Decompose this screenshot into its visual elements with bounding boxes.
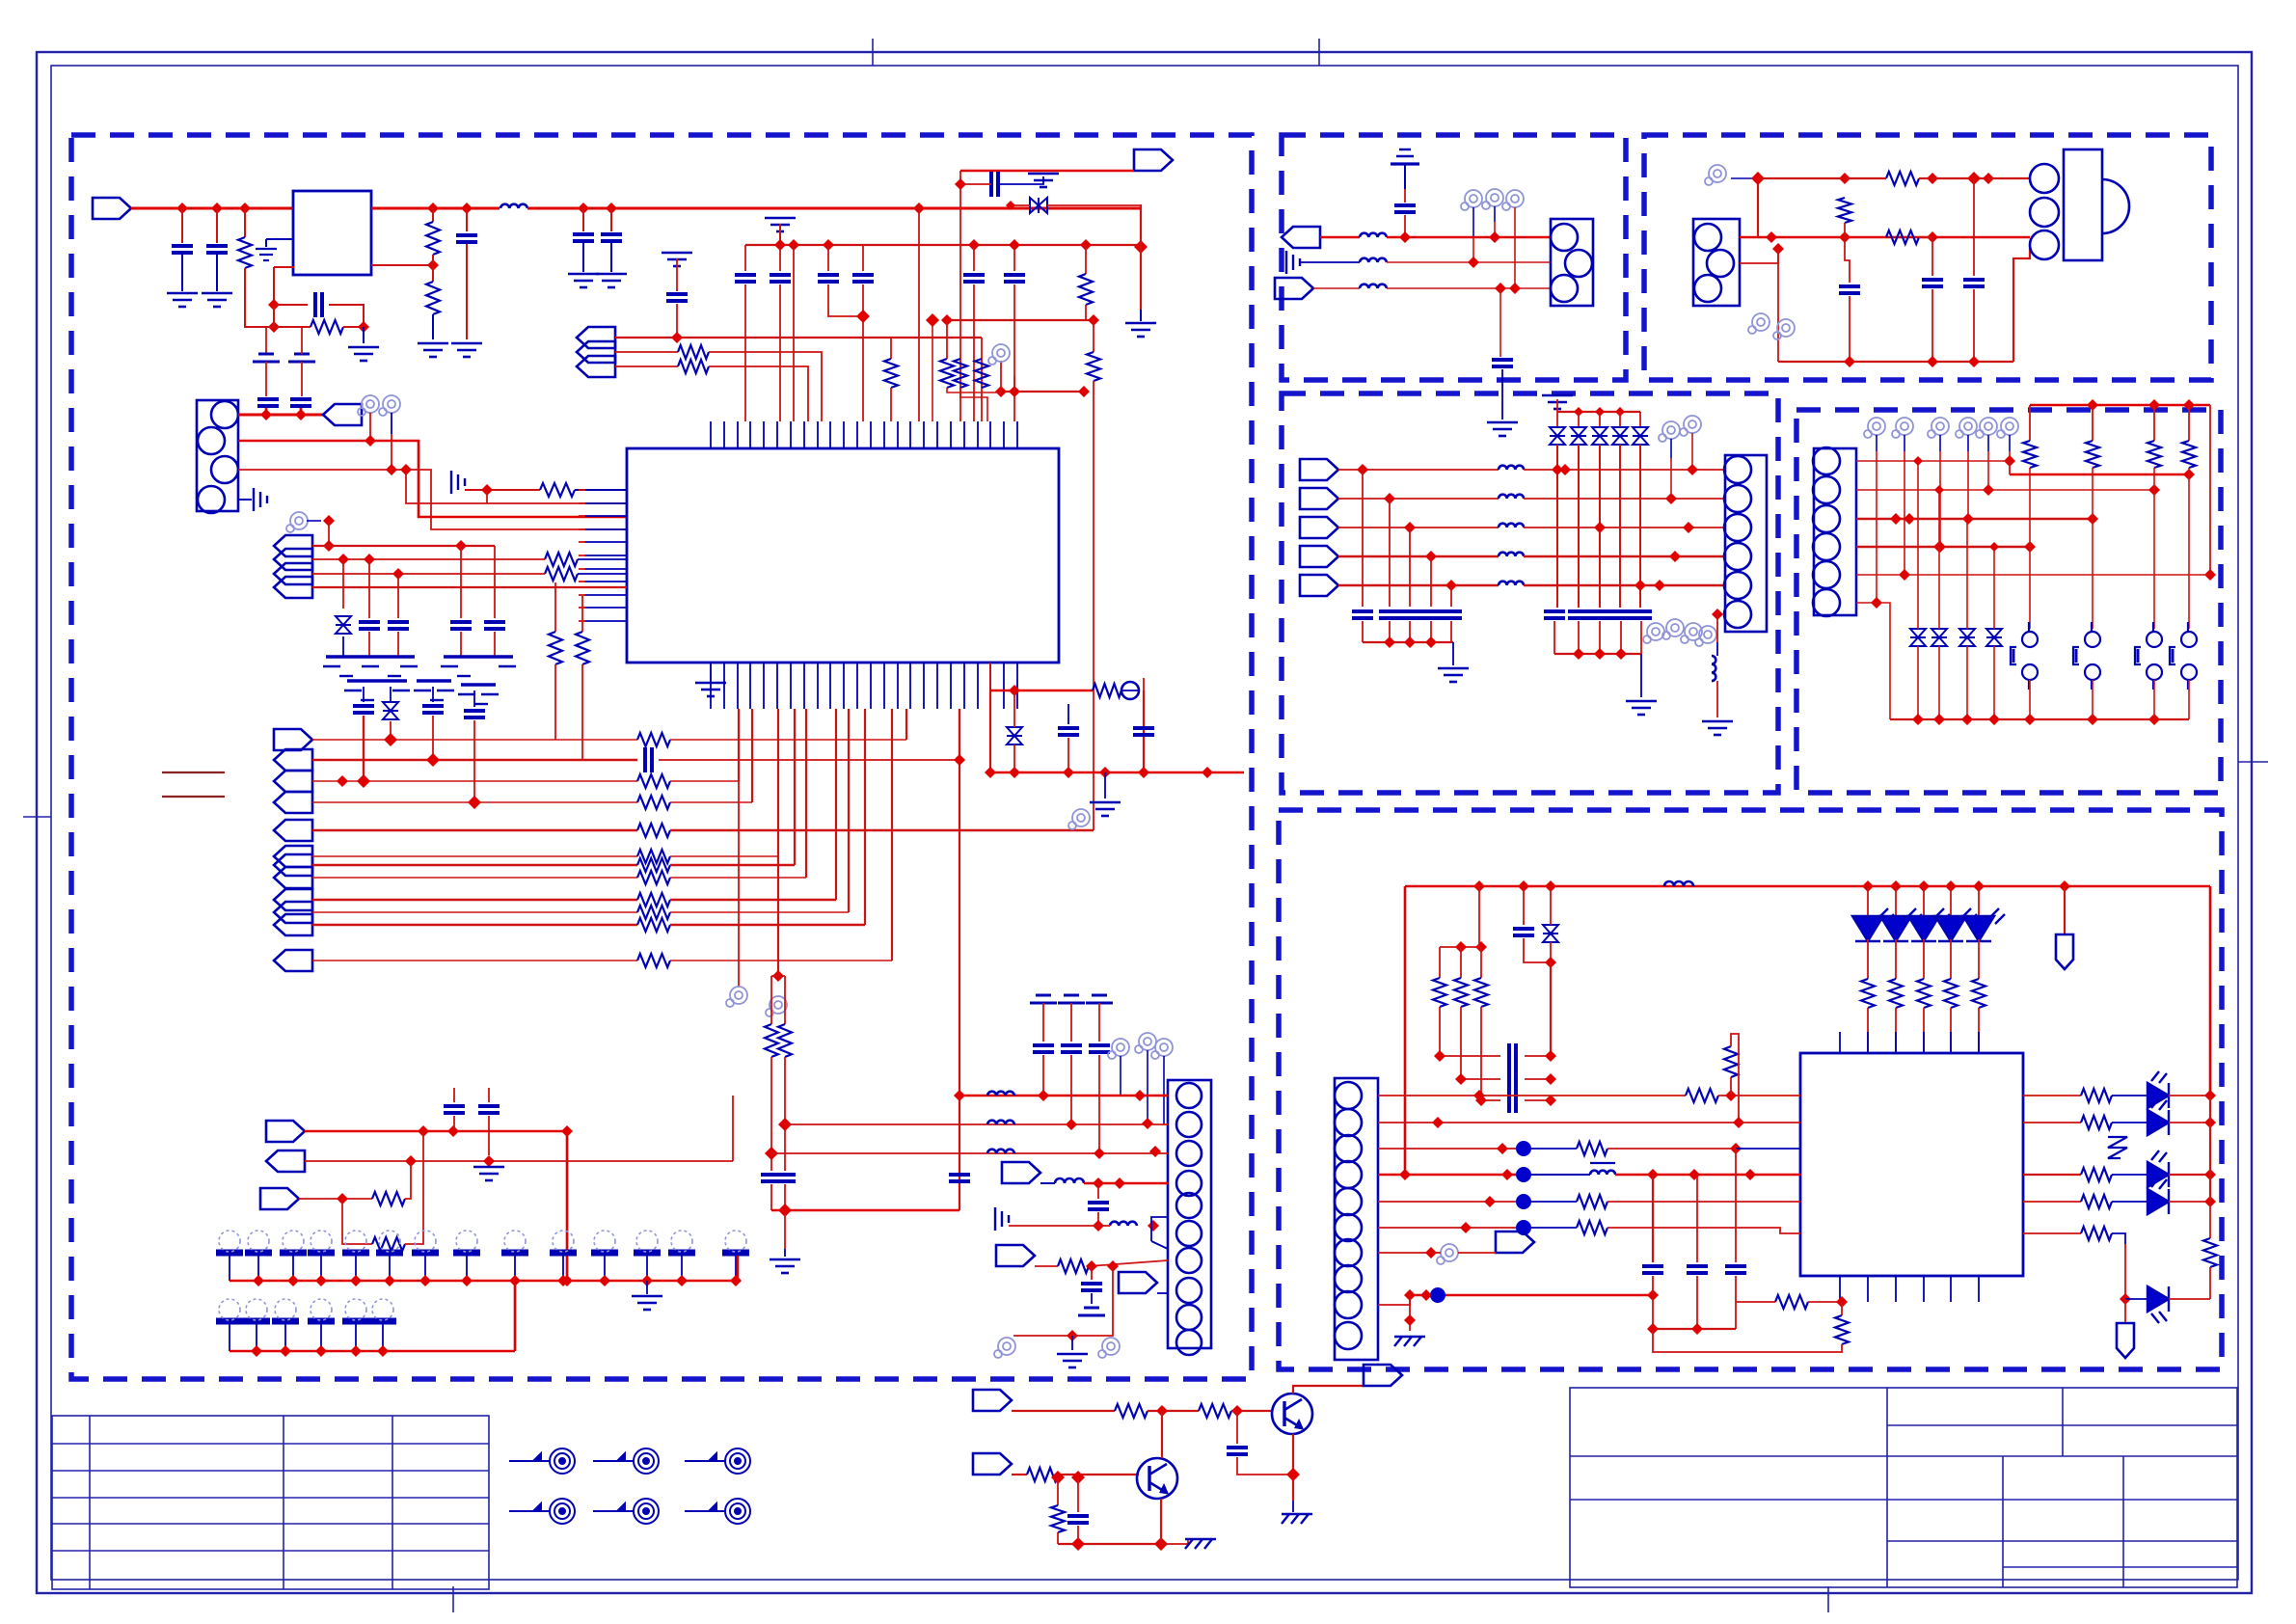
wire <box>1362 621 1364 642</box>
wire <box>1481 1099 1500 1101</box>
wire riser x995 <box>959 709 960 760</box>
IC U1 top pins <box>711 421 1017 448</box>
wire <box>1378 1295 1410 1305</box>
wire <box>1895 1008 1897 1053</box>
port row4 <box>274 792 312 813</box>
port <box>973 1390 1012 1411</box>
wire <box>1313 287 1360 289</box>
ground <box>451 343 482 357</box>
resistor <box>2081 1227 2112 1240</box>
wire <box>320 1324 322 1351</box>
wire top rail <box>1405 885 2210 888</box>
junction <box>1434 1050 1445 1062</box>
wire <box>1938 646 1940 719</box>
wire <box>1084 1182 1168 1185</box>
junction <box>1890 880 1902 892</box>
wire <box>1967 435 1969 451</box>
junction <box>1099 767 1111 778</box>
wire <box>2064 886 2066 934</box>
wire <box>1716 642 1718 656</box>
junction <box>1766 231 1777 243</box>
audio input section box <box>1282 135 1626 380</box>
wire <box>709 366 808 421</box>
junction <box>1148 1220 1159 1232</box>
resistor <box>1889 979 1903 1008</box>
wire <box>1292 1501 1294 1512</box>
wire <box>1919 177 1932 179</box>
wire row y596 <box>1856 574 2210 576</box>
zener <box>1959 629 1975 646</box>
wire <box>229 1324 230 1351</box>
resistor <box>637 893 670 907</box>
pushbutton S1 <box>2011 622 2038 690</box>
junction <box>1501 1169 1513 1180</box>
capacitor <box>1399 611 1420 618</box>
junction <box>1445 580 1457 591</box>
wire <box>1490 1201 1516 1203</box>
resistor R9 <box>678 360 709 373</box>
test point <box>1928 418 1949 438</box>
bead <box>1430 1287 1445 1303</box>
bead <box>1516 1220 1531 1235</box>
wire row y607 <box>1338 584 1499 587</box>
wire riser x766 <box>738 709 740 781</box>
wire <box>1716 614 1718 642</box>
junction <box>287 1275 299 1286</box>
fiducial <box>593 1448 659 1474</box>
junction <box>1384 636 1395 648</box>
port <box>1119 1272 1157 1293</box>
ground flipped <box>1542 395 1573 409</box>
wire <box>1653 1328 1736 1330</box>
wire <box>710 663 712 681</box>
fiducial <box>593 1499 659 1524</box>
junction <box>1839 231 1850 243</box>
wire <box>1013 376 1015 392</box>
chassis ground bar <box>441 657 516 676</box>
port <box>1300 546 1338 567</box>
wire <box>432 687 434 702</box>
resistor <box>2203 1238 2217 1267</box>
capacitor C16 <box>484 622 505 629</box>
junction <box>1927 231 1938 243</box>
junction <box>2024 541 2036 553</box>
junction <box>1460 1222 1472 1233</box>
wire <box>301 362 303 396</box>
zener <box>1986 629 2002 646</box>
wire <box>960 170 1134 173</box>
capacitor C14 <box>388 622 409 629</box>
wire <box>273 305 275 327</box>
junction <box>1634 580 1646 591</box>
resistor <box>1972 979 1985 1008</box>
resistor R15 <box>765 1024 778 1057</box>
ground <box>1125 323 1156 337</box>
wire <box>1085 245 1087 274</box>
test point TP6 <box>1068 809 1090 829</box>
pad <box>634 1231 661 1253</box>
wire <box>343 326 364 328</box>
wire <box>466 244 468 339</box>
junction <box>1138 767 1149 778</box>
wire <box>1378 1252 1431 1254</box>
junction <box>1862 880 1874 892</box>
capacitor C20 <box>761 1175 782 1181</box>
wire <box>1740 249 1778 263</box>
pad <box>308 1299 335 1321</box>
capacitor <box>1033 1045 1054 1052</box>
wire <box>1040 1182 1055 1184</box>
junction <box>1509 283 1521 294</box>
wire regulator gnd pin <box>266 238 294 240</box>
wire <box>1097 1212 1099 1226</box>
wire <box>1320 236 1360 239</box>
wire <box>946 320 948 359</box>
wire <box>265 239 267 247</box>
ground <box>348 347 379 361</box>
wire <box>265 408 268 414</box>
chassis bar <box>458 685 499 704</box>
junction <box>211 203 223 214</box>
wire row y567 <box>1856 546 2030 549</box>
inductor <box>1499 582 1524 585</box>
wire <box>1430 556 1432 607</box>
wire <box>784 1184 786 1210</box>
LED <box>2147 1177 2169 1214</box>
wire <box>1525 1099 1551 1101</box>
wire row y538 <box>1856 518 2093 521</box>
junction <box>1404 1314 1416 1326</box>
resistor R4 <box>426 282 440 314</box>
junction <box>2183 469 2195 480</box>
port <box>1002 1162 1040 1183</box>
wire <box>670 864 795 866</box>
inductor <box>1499 553 1524 556</box>
wire <box>1461 1078 1500 1080</box>
junction <box>384 1275 395 1286</box>
wire <box>1691 433 1693 470</box>
junction <box>377 1345 389 1357</box>
resistor <box>637 796 670 809</box>
junction <box>1927 356 1938 367</box>
wire row y888 <box>312 855 637 857</box>
wire <box>1058 1543 1161 1545</box>
capacitor pol <box>1078 1308 1105 1315</box>
wire top bus <box>2030 404 2210 407</box>
junction <box>1093 1177 1104 1189</box>
wire <box>1409 528 1411 607</box>
wire <box>305 1160 733 1162</box>
junction <box>386 464 397 475</box>
wire <box>1077 1477 1079 1512</box>
capacitor <box>1513 929 1534 935</box>
wire <box>1844 223 1846 237</box>
connector J4 <box>1551 219 1593 306</box>
junction <box>1009 685 1020 696</box>
junction <box>926 313 939 327</box>
wire row C <box>1378 1148 1502 1150</box>
ground <box>1057 1354 1088 1367</box>
wire <box>1550 962 1552 1052</box>
wire row y487 <box>1338 469 1499 471</box>
wire <box>770 976 772 1024</box>
junction <box>239 203 251 214</box>
wire <box>779 245 781 271</box>
junction <box>400 464 412 475</box>
wire <box>453 1088 455 1102</box>
junction <box>1983 484 1994 496</box>
junction <box>1009 767 1020 778</box>
wire <box>1067 738 1069 772</box>
wire <box>229 1256 230 1281</box>
junction <box>1066 1119 1077 1130</box>
wire <box>1501 369 1503 420</box>
pad <box>243 1299 270 1321</box>
wire <box>257 1256 259 1281</box>
junction <box>323 540 335 552</box>
junction <box>955 178 966 190</box>
wire <box>265 362 267 396</box>
wire reg sense <box>371 264 433 266</box>
junction <box>253 1275 264 1286</box>
wire down <box>777 856 779 976</box>
test point <box>1976 418 1997 438</box>
test point <box>1135 1033 1156 1053</box>
port row5 <box>274 820 312 841</box>
centering mark top 2 <box>1318 39 1320 66</box>
centering mark bottom 2 <box>1827 1586 1829 1612</box>
wire long riser down <box>959 709 960 1096</box>
junction <box>1425 1247 1437 1259</box>
junction <box>1839 173 1850 184</box>
wire <box>1607 1148 1736 1150</box>
wire <box>216 255 218 291</box>
wire <box>1950 886 1952 916</box>
wire <box>1085 305 1087 320</box>
wire <box>828 284 863 316</box>
wire <box>216 208 218 243</box>
junction <box>2087 714 2098 725</box>
wire <box>391 434 392 470</box>
junction <box>1489 231 1500 243</box>
wire <box>1730 1077 1732 1096</box>
wire <box>1652 1175 1654 1262</box>
wire <box>1550 886 1552 925</box>
pad <box>550 1231 577 1253</box>
junction <box>481 484 493 496</box>
wire <box>1236 1411 1238 1444</box>
wire <box>1736 1148 1800 1150</box>
wire vertical <box>1140 204 1142 310</box>
wire <box>1151 1241 1168 1249</box>
resistor <box>637 774 670 788</box>
junction <box>1918 880 1930 892</box>
wire <box>1619 412 1621 427</box>
wire <box>363 687 365 702</box>
test point <box>1748 313 1769 334</box>
ground ac2 <box>1286 251 1300 274</box>
junction <box>461 1275 473 1286</box>
wire <box>1599 445 1601 608</box>
wire bus link <box>514 1281 517 1351</box>
junction <box>2204 569 2216 581</box>
wire <box>2029 468 2031 629</box>
wire <box>615 337 982 338</box>
transistor Q2 <box>1137 1458 1177 1499</box>
resistor R14 <box>576 632 589 664</box>
capacitor <box>1509 1043 1516 1069</box>
revision table <box>52 1416 489 1589</box>
wire left drop <box>1404 886 1407 1175</box>
wire <box>989 690 991 772</box>
resistor <box>1577 1142 1607 1155</box>
capacitor <box>1687 1266 1708 1273</box>
junction <box>1231 1405 1243 1417</box>
ground slashed <box>1282 1514 1312 1524</box>
wire <box>1967 451 1969 519</box>
ground <box>1090 802 1121 816</box>
ground <box>695 683 726 696</box>
wire <box>670 855 778 857</box>
junction <box>1665 493 1677 504</box>
junction <box>1545 1073 1556 1085</box>
centering mark bottom 1 <box>452 1586 454 1612</box>
junction <box>1594 648 1606 660</box>
junction <box>1094 1148 1105 1159</box>
junction <box>350 1345 362 1357</box>
port row6 <box>274 846 312 867</box>
junction <box>1067 1330 1078 1341</box>
ground ac <box>995 1207 1009 1231</box>
wire <box>397 632 399 657</box>
ground <box>202 293 232 307</box>
wire <box>1439 947 1441 978</box>
wire <box>1670 439 1672 458</box>
wire <box>1988 177 2030 179</box>
zener <box>1633 427 1648 445</box>
resistor R18 <box>372 1237 405 1251</box>
wire <box>1409 621 1411 642</box>
inductor <box>1712 656 1715 681</box>
test point TP2b <box>286 512 308 532</box>
wire <box>1387 236 1551 239</box>
test point <box>1864 418 1885 438</box>
wire <box>890 338 892 359</box>
zener <box>1931 629 1947 646</box>
port <box>1300 575 1338 596</box>
wire <box>1757 178 1759 237</box>
ground <box>254 488 267 511</box>
wire <box>1845 237 1850 283</box>
wire <box>1452 642 1454 665</box>
wire <box>1389 499 1391 607</box>
junction <box>1134 240 1148 254</box>
wire <box>466 208 468 231</box>
wire cap bus <box>1363 641 1453 643</box>
IC U1 left pin stubs <box>579 490 585 621</box>
junction <box>1744 1169 1756 1180</box>
connector J7 <box>1813 447 1856 616</box>
speaker SP1 <box>2030 149 2129 260</box>
wire row y861 <box>312 829 637 831</box>
pad <box>342 1299 369 1321</box>
inductor L8 <box>1360 258 1387 262</box>
port <box>274 563 312 584</box>
port down <box>2056 934 2073 969</box>
port VCC <box>323 404 362 425</box>
wire <box>1507 1174 1516 1177</box>
wire row <box>1740 236 2030 239</box>
junction <box>1691 1323 1703 1335</box>
ground slashed <box>1394 1337 1425 1346</box>
resistor R1 <box>238 237 252 268</box>
junction <box>337 775 348 787</box>
wire <box>1035 1265 1058 1267</box>
wire <box>2169 1201 2210 1203</box>
wire <box>1409 1295 1411 1331</box>
wire <box>466 1256 468 1281</box>
wire <box>1738 1044 1740 1123</box>
pad <box>308 1231 335 1253</box>
junction <box>1871 597 1882 609</box>
wire <box>453 1116 455 1131</box>
net stub <box>162 771 225 773</box>
wire <box>432 208 434 222</box>
wire <box>1104 772 1106 798</box>
capacitor <box>1081 1284 1102 1290</box>
wire <box>771 975 785 977</box>
wire bottom <box>1778 361 2013 363</box>
wire <box>2112 1174 2147 1176</box>
resistor R12 <box>545 567 578 581</box>
junction <box>1420 1289 1432 1301</box>
wire regulator output <box>371 207 500 210</box>
wire <box>779 224 781 245</box>
port <box>274 577 312 598</box>
net stub <box>162 796 225 798</box>
main board section box <box>71 135 1252 1379</box>
wire <box>735 1256 737 1281</box>
wire <box>1011 204 1030 206</box>
wire <box>1439 1007 1441 1056</box>
junction <box>1654 580 1665 591</box>
wire <box>473 690 475 707</box>
wire <box>1639 412 1641 427</box>
test point <box>1461 190 1482 210</box>
wire <box>1523 886 1525 925</box>
resistor <box>1051 1505 1065 1532</box>
capacitor C15 <box>450 622 472 629</box>
LED <box>1880 908 1922 941</box>
wire <box>2188 405 2190 441</box>
junction <box>1432 1117 1444 1128</box>
junction <box>1933 714 1945 725</box>
wire <box>862 245 864 271</box>
resistor R19 <box>1093 684 1121 697</box>
junction <box>1683 522 1694 533</box>
wire <box>2009 461 2011 474</box>
wire <box>1098 1225 1110 1227</box>
capacitor <box>1509 1067 1516 1092</box>
pad <box>722 1231 749 1253</box>
wire <box>947 319 1094 321</box>
ground slashed2 <box>1185 1539 1216 1549</box>
wire <box>265 327 267 354</box>
wire row y959 <box>312 924 637 926</box>
junction <box>176 203 188 214</box>
junction <box>1989 542 1999 552</box>
port <box>577 341 615 363</box>
